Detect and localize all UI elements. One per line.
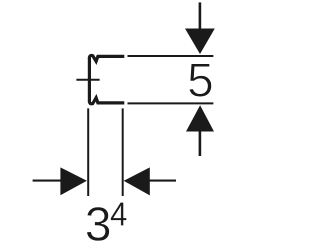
footnote superscript 4 [111, 202, 127, 225]
arrowhead pointing down [185, 29, 215, 55]
arrowhead pointing right [60, 167, 87, 195]
dimension line top (5) [128, 55, 214, 57]
profile left wall [88, 58, 91, 102]
arrowhead pointing left [124, 167, 150, 195]
arrow stem left (34) [33, 180, 61, 182]
profile top flange and lip [89, 55, 124, 61]
extension line left (34) [87, 108, 89, 196]
profile cross-section (C-rail) [33, 2, 214, 196]
dimension label 5 [189, 63, 212, 96]
extension line right (34) [122, 108, 124, 196]
profile bottom flange and lip [89, 98, 124, 104]
center line tick [76, 79, 99, 81]
arrow stem right (34) [149, 180, 176, 182]
arrow stem up (bottom) [199, 130, 202, 156]
dimension line bottom (5) [128, 102, 214, 104]
arrow stem down (top) [199, 2, 202, 30]
arrowhead pointing up [186, 105, 214, 131]
dimension label 3 [87, 207, 110, 241]
